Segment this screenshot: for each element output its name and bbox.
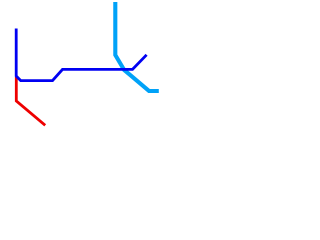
cyan line <box>115 2 159 91</box>
red line <box>16 77 45 125</box>
transit line map <box>0 0 160 160</box>
blue line <box>16 29 146 81</box>
